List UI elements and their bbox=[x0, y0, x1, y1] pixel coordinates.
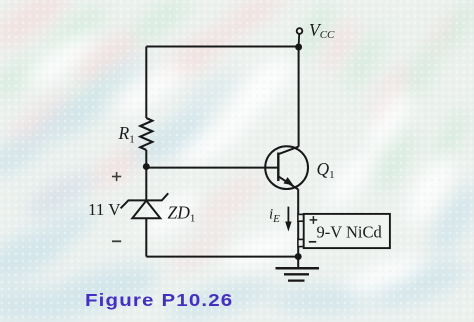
minus sign battery bbox=[309, 241, 316, 243]
wire between battery tabs bbox=[297, 221, 299, 239]
wire bottom horizontal bbox=[146, 256, 298, 258]
current arrow iE bbox=[285, 207, 291, 232]
battery bottom connector tab bbox=[298, 239, 304, 246]
wire collector vertical bbox=[298, 47, 300, 147]
node base junction dot bbox=[143, 163, 150, 170]
ground symbol bbox=[276, 257, 320, 281]
wire R1 to node bbox=[145, 150, 147, 167]
svg-text:VCC: VCC bbox=[309, 20, 335, 41]
node Vcc junction dot bbox=[295, 44, 302, 51]
caption Figure P10.26 bbox=[85, 290, 233, 311]
wire Vcc stub bbox=[298, 34, 301, 46]
svg-text:Q1: Q1 bbox=[317, 159, 335, 181]
plus sign zener bbox=[112, 172, 121, 181]
wire base horizontal bbox=[146, 167, 278, 169]
resistor R1 bbox=[140, 118, 152, 150]
wire emitter vertical bbox=[297, 189, 299, 214]
svg-text:11 V: 11 V bbox=[88, 200, 121, 219]
node ground junction dot bbox=[295, 253, 302, 260]
plus sign battery bbox=[310, 216, 318, 224]
svg-text:iE: iE bbox=[269, 207, 280, 225]
battery 9-V NiCd box bbox=[304, 214, 390, 248]
transistor Q1 bbox=[265, 146, 308, 189]
wire top horizontal bbox=[146, 46, 298, 48]
wire zener to bottom bbox=[145, 218, 147, 256]
zener diode ZD1 bbox=[121, 193, 169, 218]
svg-text:R1: R1 bbox=[118, 123, 135, 145]
wire node to zener bbox=[145, 167, 147, 201]
wire left upper bbox=[145, 47, 147, 119]
minus sign zener bbox=[112, 240, 121, 242]
terminal Vcc open circle bbox=[297, 28, 303, 34]
battery top connector tab bbox=[298, 214, 304, 221]
svg-text:ZD1: ZD1 bbox=[168, 202, 196, 224]
svg-text:9-V NiCd: 9-V NiCd bbox=[317, 223, 383, 242]
wire tab to ground node bbox=[297, 247, 299, 257]
